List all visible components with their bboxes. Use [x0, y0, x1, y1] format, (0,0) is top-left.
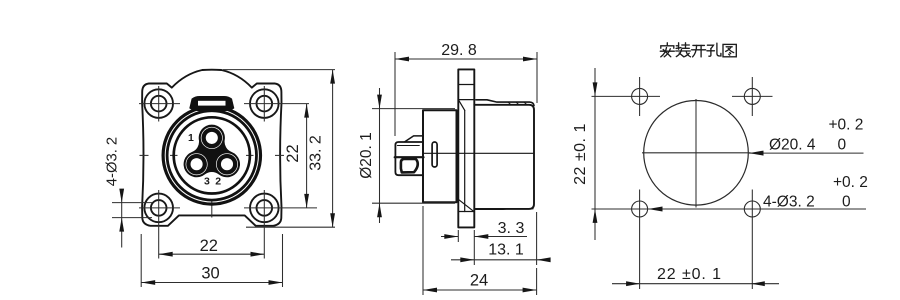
TL crosshair: [592, 95, 661, 97]
socket contact 3: [186, 154, 207, 175]
split centerline: [423, 152, 534, 154]
dimension 24: [423, 206, 537, 295]
rear body top lip: [476, 100, 534, 106]
char 开: [693, 44, 705, 46]
cutout centerline horizontal: [642, 152, 751, 154]
panel cutout circle: [644, 101, 749, 206]
centerline TL horizontal: [139, 103, 180, 105]
dimension 30 bottom: [141, 234, 282, 287]
svg-text:30: 30: [201, 265, 219, 283]
drill hole TL: [632, 88, 648, 104]
svg-text:22: 22: [284, 144, 302, 162]
char 装: [678, 43, 680, 49]
centerline TL vertical: [158, 86, 160, 122]
center axis vertical tick: [211, 199, 213, 218]
dimension 13.1: [451, 212, 548, 265]
title 安装开孔图 drawn as strokes: [660, 43, 736, 57]
mounting hole bottom-right: [257, 200, 273, 216]
mounting hole rings front view: [144, 89, 278, 222]
key slot: [198, 101, 226, 106]
drill hole TR: [744, 88, 760, 104]
knurl ticks: [508, 102, 511, 105]
key tab: [189, 96, 234, 112]
socket contact 2: [217, 154, 238, 175]
arrow phi20.4: [749, 151, 764, 156]
svg-text:0: 0: [842, 193, 851, 210]
dimension 4-phi3.2: [112, 190, 152, 248]
front latch block: [395, 142, 422, 175]
flange outline: [142, 70, 281, 226]
hole boss ring bottom-right: [250, 194, 279, 223]
centerline BR horizontal: [244, 207, 317, 209]
hole centerlines front view: [139, 86, 317, 259]
svg-text:22 ±0. 1: 22 ±0. 1: [657, 266, 722, 283]
mounting hole top-right: [257, 96, 273, 112]
flange side view: [458, 69, 474, 227]
svg-text:4-Ø3. 2: 4-Ø3. 2: [763, 193, 815, 210]
svg-text:13. 1: 13. 1: [488, 242, 524, 259]
svg-text:2: 2: [215, 175, 221, 187]
dimension phi20.1: [372, 88, 455, 223]
centerline BL horizontal: [139, 207, 180, 209]
cylinder body: [423, 110, 457, 202]
arrow 4-phi3.2: [648, 207, 663, 212]
hole boss ring top-left: [144, 89, 173, 118]
drill hole BL: [632, 201, 648, 217]
svg-text:1: 1: [188, 132, 194, 144]
svg-text:4-Ø3. 2: 4-Ø3. 2: [105, 137, 121, 186]
svg-text:0: 0: [838, 137, 847, 154]
centerline BL vertical: [158, 190, 160, 259]
coupling outer circle: [163, 107, 260, 204]
latch key tab top: [405, 136, 423, 142]
center axis horizontal ticks: [140, 154, 149, 156]
socket contact 1: [201, 128, 222, 149]
centerline TR vertical: [263, 86, 265, 122]
latch spring hook: [401, 159, 418, 173]
svg-text:29. 8: 29. 8: [441, 42, 477, 59]
mounting hole top-left: [151, 96, 167, 112]
char 孔: [707, 45, 713, 48]
char 安: [666, 43, 668, 45]
svg-text:22: 22: [200, 237, 218, 255]
cylinder slot capsule: [432, 142, 437, 167]
svg-text:22 ±0. 1: 22 ±0. 1: [572, 123, 589, 185]
svg-text:+0. 2: +0. 2: [833, 174, 868, 191]
pin number labels: [188, 132, 221, 187]
dimension 22 right: [306, 104, 308, 208]
rear body: [474, 105, 534, 209]
rear bottom step: [476, 208, 533, 211]
cutout centerline vertical: [695, 99, 697, 208]
svg-text:+0. 2: +0. 2: [829, 117, 864, 134]
dimension 29.8: [395, 52, 537, 136]
mounting hole bottom-left: [151, 200, 167, 216]
TR crosshair: [732, 95, 773, 97]
dimension 22 bottom: [159, 253, 265, 255]
contact insert trefoil: [184, 125, 240, 178]
latch mid line: [395, 156, 424, 158]
svg-text:33. 2: 33. 2: [308, 135, 325, 171]
centerline TR horizontal: [244, 103, 309, 105]
BL BR crosshair leader: [592, 208, 867, 210]
dimension 3.3: [441, 230, 527, 265]
svg-text:Ø20. 1: Ø20. 1: [358, 132, 375, 179]
svg-text:24: 24: [470, 272, 488, 290]
left dim line: [594, 68, 596, 240]
bottom dim line: [612, 283, 779, 285]
hole boss ring top-right: [250, 89, 279, 118]
cavity circle: [174, 117, 250, 193]
phi20.4 leader: [749, 152, 864, 154]
dimension 33.2 right: [223, 70, 335, 228]
svg-text:Ø20. 4: Ø20. 4: [769, 137, 816, 154]
char 图: [723, 44, 736, 56]
central circles front view: [163, 107, 260, 204]
hole boss ring bottom-left: [144, 194, 173, 223]
arrows left dim: [593, 82, 598, 96]
svg-text:3. 3: 3. 3: [498, 220, 525, 237]
coupling inner circle: [167, 111, 256, 200]
svg-text:3: 3: [204, 175, 210, 187]
drill hole BR: [744, 201, 760, 217]
centerline BR vertical: [263, 190, 265, 259]
arrows bottom dim: [626, 281, 640, 286]
